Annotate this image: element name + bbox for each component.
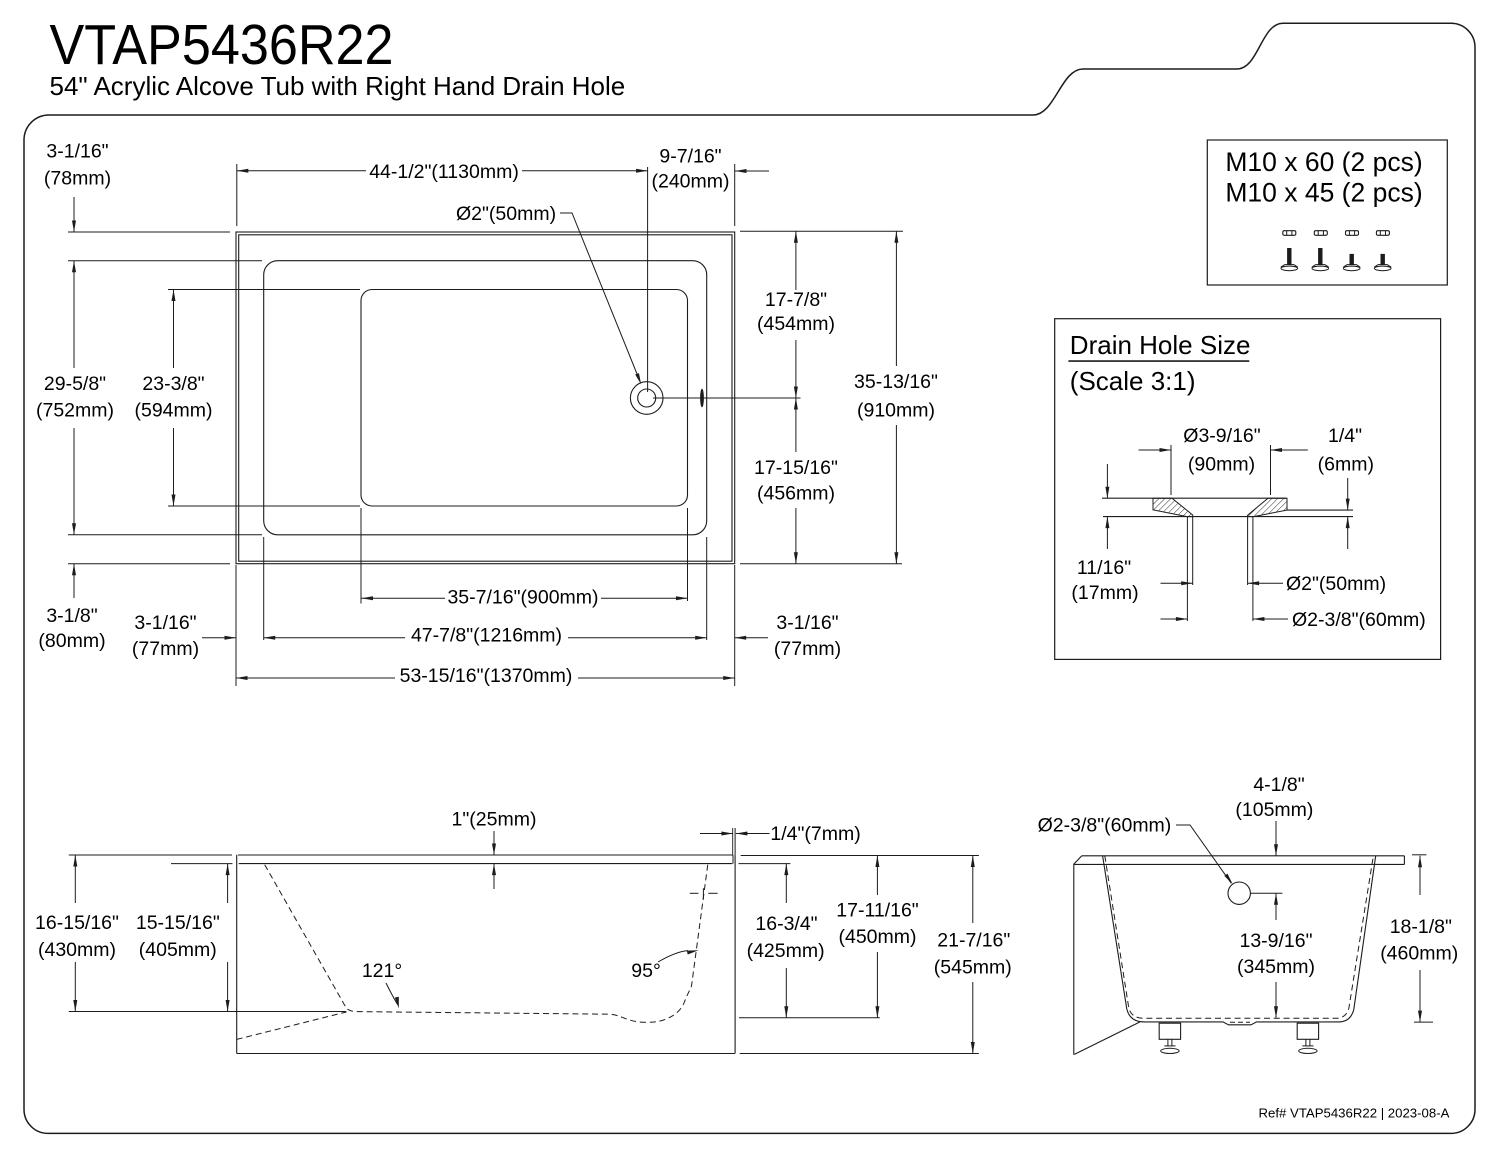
svg-text:17-7/8": 17-7/8" (765, 289, 827, 311)
svg-text:35-7/16"(900mm): 35-7/16"(900mm) (447, 587, 598, 609)
svg-text:Ref# VTAP5436R22 | 2023-08-A: Ref# VTAP5436R22 | 2023-08-A (1259, 1106, 1450, 1121)
svg-text:(460mm): (460mm) (1380, 943, 1458, 965)
svg-text:16-3/4": 16-3/4" (755, 913, 817, 935)
svg-text:95°: 95° (631, 960, 661, 982)
svg-text:23-3/8": 23-3/8" (142, 373, 204, 395)
svg-text:M10 x 60 (2 pcs): M10 x 60 (2 pcs) (1225, 147, 1422, 177)
svg-text:1/4": 1/4" (1328, 425, 1362, 447)
svg-text:35-13/16": 35-13/16" (854, 371, 938, 393)
svg-text:1/4"(7mm): 1/4"(7mm) (770, 823, 860, 845)
svg-text:13-9/16": 13-9/16" (1239, 930, 1312, 952)
svg-text:(425mm): (425mm) (747, 940, 825, 962)
svg-text:(80mm): (80mm) (38, 630, 105, 652)
svg-text:(752mm): (752mm) (36, 400, 114, 422)
svg-text:1"(25mm): 1"(25mm) (452, 809, 537, 831)
svg-text:Ø2"(50mm): Ø2"(50mm) (1286, 573, 1386, 595)
svg-text:44-1/2"(1130mm): 44-1/2"(1130mm) (369, 161, 519, 183)
svg-text:47-7/8"(1216mm): 47-7/8"(1216mm) (411, 625, 562, 647)
svg-text:(90mm): (90mm) (1188, 454, 1255, 476)
svg-text:53-15/16"(1370mm): 53-15/16"(1370mm) (400, 665, 573, 687)
svg-text:VTAP5436R22: VTAP5436R22 (50, 13, 394, 77)
svg-text:(240mm): (240mm) (651, 171, 729, 193)
svg-text:(77mm): (77mm) (132, 638, 199, 660)
svg-text:(77mm): (77mm) (774, 638, 841, 660)
svg-text:Ø2-3/8"(60mm): Ø2-3/8"(60mm) (1038, 815, 1172, 837)
svg-text:(105mm): (105mm) (1235, 799, 1313, 821)
svg-text:121°: 121° (362, 960, 402, 982)
svg-text:Drain Hole Size: Drain Hole Size (1070, 330, 1251, 360)
svg-text:(6mm): (6mm) (1318, 454, 1374, 476)
svg-text:(78mm): (78mm) (44, 168, 111, 190)
svg-text:(910mm): (910mm) (857, 399, 935, 421)
svg-text:Ø3-9/16": Ø3-9/16" (1183, 425, 1260, 447)
svg-text:29-5/8": 29-5/8" (44, 373, 106, 395)
svg-text:3-1/16": 3-1/16" (46, 141, 108, 163)
svg-text:15-15/16": 15-15/16" (136, 912, 220, 934)
svg-text:54" Acrylic Alcove Tub with Ri: 54" Acrylic Alcove Tub with Right Hand D… (50, 71, 626, 101)
svg-text:3-1/16": 3-1/16" (776, 612, 838, 634)
svg-text:Ø2"(50mm): Ø2"(50mm) (456, 203, 556, 225)
svg-text:3-1/8": 3-1/8" (46, 605, 97, 627)
svg-text:M10 x 45 (2 pcs): M10 x 45 (2 pcs) (1225, 178, 1422, 208)
svg-text:(345mm): (345mm) (1237, 956, 1315, 978)
svg-text:(430mm): (430mm) (38, 939, 116, 961)
svg-text:17-11/16": 17-11/16" (836, 900, 919, 922)
svg-text:(450mm): (450mm) (838, 926, 916, 948)
svg-text:4-1/8": 4-1/8" (1253, 774, 1304, 796)
svg-text:(Scale 3:1): (Scale 3:1) (1070, 366, 1196, 396)
svg-text:16-15/16": 16-15/16" (35, 912, 119, 934)
svg-text:(545mm): (545mm) (934, 957, 1012, 979)
svg-text:(454mm): (454mm) (757, 313, 835, 335)
svg-text:11/16": 11/16" (1077, 557, 1131, 579)
svg-text:3-1/16": 3-1/16" (134, 612, 196, 634)
svg-text:(17mm): (17mm) (1071, 582, 1138, 604)
svg-text:18-1/8": 18-1/8" (1390, 916, 1452, 938)
svg-text:17-15/16": 17-15/16" (754, 457, 838, 479)
svg-text:(405mm): (405mm) (139, 939, 217, 961)
svg-text:9-7/16": 9-7/16" (659, 146, 721, 168)
svg-text:21-7/16": 21-7/16" (937, 930, 1010, 952)
svg-text:Ø2-3/8"(60mm): Ø2-3/8"(60mm) (1292, 609, 1426, 631)
svg-text:(456mm): (456mm) (757, 483, 835, 505)
svg-text:(594mm): (594mm) (134, 400, 212, 422)
